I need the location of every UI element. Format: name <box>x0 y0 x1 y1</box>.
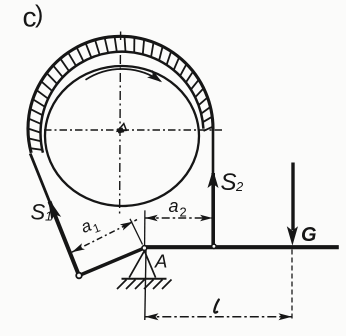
G extension line below beam <box>291 250 293 320</box>
support ground hatching <box>117 280 172 290</box>
svg-text:a: a <box>169 196 179 216</box>
band strap to S1 pin (force S1 line of action) <box>30 154 50 205</box>
svg-text:A: A <box>154 251 167 272</box>
l dimension line <box>145 316 292 318</box>
a2 right arrowhead <box>200 215 213 222</box>
a2 left arrowhead <box>145 215 158 222</box>
horizontal lever beam from A to right <box>144 245 339 249</box>
brake band outer edge arc <box>28 36 213 153</box>
a2 extension line at A <box>144 210 146 245</box>
force S2 arrowhead <box>208 170 219 189</box>
svg-text:1: 1 <box>45 209 52 224</box>
force S1 arrowhead <box>48 198 61 221</box>
vertical centerline <box>119 55 122 214</box>
drum center mark <box>118 124 127 132</box>
a2 dimension line <box>145 217 212 219</box>
centerline tick above band top <box>120 32 122 41</box>
svg-text:S: S <box>31 200 46 225</box>
l left arrowhead <box>145 313 159 320</box>
brake band inner edge arc <box>41 52 204 153</box>
label a1 (rotated) <box>78 213 102 240</box>
pinned support triangle at A <box>129 251 155 278</box>
force G arrowhead <box>287 226 298 246</box>
pin joint on strap <box>76 273 82 279</box>
horizontal centerline <box>44 129 222 131</box>
a1 dimension line <box>72 220 137 253</box>
a1 right arrowhead <box>120 222 133 231</box>
svg-text:S: S <box>221 169 237 196</box>
svg-text:2: 2 <box>235 179 244 194</box>
extension line below A <box>145 250 146 320</box>
svg-text:2: 2 <box>180 205 187 220</box>
brake band lining hatch ticks <box>28 37 213 150</box>
brake drum (pulley) <box>45 66 199 206</box>
rotation arrowhead <box>147 70 162 82</box>
force G shaft <box>291 163 294 231</box>
brake lever (pin to fulcrum A) <box>79 248 144 276</box>
pin at fulcrum A <box>142 246 147 251</box>
svg-text:): ) <box>35 1 43 29</box>
a1 left arrowhead <box>72 243 85 252</box>
support ground line <box>122 278 167 280</box>
svg-text:G: G <box>301 224 317 246</box>
a1 leader from A <box>130 219 143 245</box>
pin at S2 / beam junction <box>212 244 216 248</box>
rotation direction arrow (arc) <box>86 69 161 81</box>
l right arrowhead <box>279 313 293 320</box>
force S2 vertical line <box>212 129 215 176</box>
label l (script ell) <box>214 300 219 313</box>
